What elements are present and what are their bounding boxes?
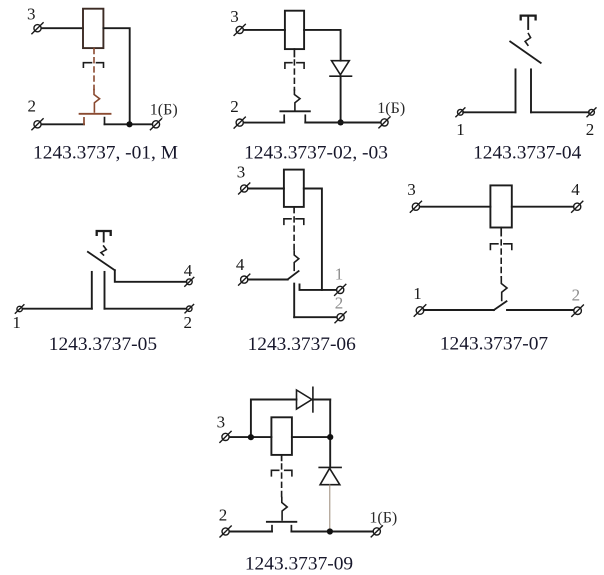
svg-text:1243.3737, -01, М: 1243.3737, -01, М [33, 143, 178, 164]
svg-text:2: 2 [219, 506, 228, 525]
svg-text:1243.3737-02, -03: 1243.3737-02, -03 [244, 143, 388, 164]
svg-text:1243.3737-07: 1243.3737-07 [440, 334, 549, 355]
svg-text:4: 4 [571, 180, 580, 199]
svg-text:2: 2 [335, 294, 344, 313]
svg-text:1: 1 [12, 313, 21, 332]
svg-text:1243.3737-09: 1243.3737-09 [245, 554, 353, 575]
svg-text:3: 3 [237, 163, 246, 182]
svg-text:1243.3737-04: 1243.3737-04 [473, 143, 582, 164]
svg-text:3: 3 [217, 413, 226, 432]
svg-text:1(Б): 1(Б) [377, 100, 405, 117]
svg-text:3: 3 [230, 7, 239, 26]
svg-text:2: 2 [28, 97, 37, 116]
svg-text:3: 3 [407, 180, 416, 199]
svg-text:1: 1 [413, 284, 422, 303]
svg-text:1: 1 [335, 265, 344, 284]
svg-text:4: 4 [184, 261, 193, 280]
svg-text:4: 4 [236, 255, 245, 274]
svg-text:2: 2 [572, 286, 581, 305]
svg-text:2: 2 [586, 120, 595, 139]
svg-text:1(Б): 1(Б) [369, 510, 397, 527]
svg-text:3: 3 [27, 5, 36, 24]
svg-text:1(Б): 1(Б) [150, 102, 178, 119]
svg-text:1: 1 [456, 120, 465, 139]
svg-text:2: 2 [184, 313, 193, 332]
svg-text:2: 2 [230, 97, 239, 116]
svg-text:1243.3737-06: 1243.3737-06 [248, 334, 357, 355]
svg-text:1243.3737-05: 1243.3737-05 [49, 334, 157, 355]
